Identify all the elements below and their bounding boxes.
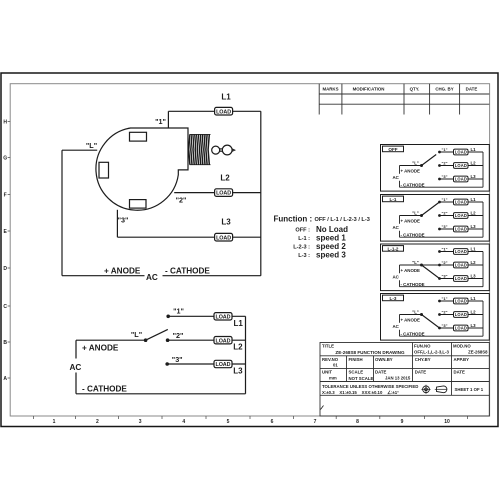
svg-text:AC: AC [393,324,400,329]
function diagram box "L-1-2" [381,244,490,291]
svg-text:APP.BY: APP.BY [454,357,470,362]
svg-text:JAN 13 2015: JAN 13 2015 [385,376,411,381]
svg-text:speed 3: speed 3 [316,250,346,259]
terminal slot 3 (bottom) [130,200,147,209]
svg-text:- CATHODE: - CATHODE [401,331,425,336]
svg-text:L2: L2 [471,161,477,166]
LOAD boxes box 2 [454,199,469,205]
LOAD boxes box 3 [454,249,469,255]
wires box 4 [400,301,484,336]
chain end nub [232,149,235,151]
svg-text:OFF,L-1,L-2-3,L-3: OFF,L-1,L-2-3,L-3 [414,350,449,355]
wire: left vertical [61,150,63,276]
svg-text:- CATHODE: - CATHODE [82,384,127,393]
svg-text:"2": "2" [173,331,184,340]
svg-text:DATE: DATE [454,370,466,375]
function diagram box "L-3" [381,294,490,341]
svg-text:"1": "1" [441,247,447,252]
lower schematic wires [76,316,246,394]
svg-text:"3": "3" [441,274,447,279]
svg-text:LOAD: LOAD [455,263,467,268]
svg-text:ZE-268S8: ZE-268S8 [468,350,488,355]
svg-text:"3": "3" [441,224,447,229]
svg-text:DATE: DATE [375,370,387,375]
svg-text:AC: AC [70,363,82,372]
svg-text:AC: AC [393,225,400,230]
switch common dot L (lower) [144,338,148,342]
svg-text:Function :: Function : [274,215,313,224]
svg-text:LOAD: LOAD [216,338,231,344]
svg-text:"L": "L" [86,141,97,150]
svg-text:L1: L1 [471,247,477,252]
svg-text:+ ANODE: + ANODE [82,344,119,353]
switch common dot "L" box 2 [420,214,423,217]
wire: bottom rail with AC gap [62,275,261,277]
load resistor LOAD1 [215,107,233,115]
svg-text:- CATHODE: - CATHODE [401,282,425,287]
wire: L2 from body [174,192,261,194]
svg-text:1: 1 [53,419,56,425]
LOAD boxes box 1 [454,149,469,155]
svg-text:"1": "1" [441,147,447,152]
svg-text:"L": "L" [412,310,419,315]
wires box 1 [400,152,484,187]
svg-text:L3: L3 [233,366,243,375]
svg-text:LOAD: LOAD [216,235,231,241]
sheet outer border [1,73,498,427]
svg-text:SCALE: SCALE [349,370,364,375]
load resistor LOAD1 (lower) [214,313,232,320]
svg-text:mm: mm [329,376,337,381]
terminal dots 1,2,3 box 1 [438,151,441,154]
svg-text:AC: AC [393,275,400,280]
svg-text:- CATHODE: - CATHODE [165,267,210,276]
load resistor LOAD2 (lower) [214,337,232,344]
wire: left vertical with AC gap [75,340,77,394]
wires box 3 [400,252,484,287]
function diagram box "L-1" [381,195,490,242]
svg-text:LOAD: LOAD [455,249,467,254]
svg-text:- CATHODE: - CATHODE [401,182,425,187]
function diagram box "OFF" [381,145,490,192]
terminal dots 1,2,3 box 3 [438,250,441,253]
third-angle projection symbol (target) [423,386,430,393]
svg-text:LOAD: LOAD [455,163,467,168]
switch arm box 1 (OFF) [422,155,437,166]
svg-text:"2": "2" [441,161,447,166]
svg-text:LOAD: LOAD [455,150,467,155]
svg-text:7: 7 [314,419,317,425]
wire: L3 rail [117,236,260,238]
switch arm box 2 (L-1) [422,202,440,216]
column numbers 1-10 on bottom margin [53,419,450,425]
switch arm box 4 (L-3) [422,315,440,329]
svg-text:L3: L3 [471,224,477,229]
svg-text:"3": "3" [118,216,129,225]
svg-text:TITLE: TITLE [322,344,334,349]
terminal dot 2 (lower) [166,338,170,342]
wire: terminal 1 up to L1 rail [167,111,169,127]
svg-text:01: 01 [333,363,338,368]
load resistor LOAD3 (lower) [214,360,232,367]
svg-text:G: G [3,155,7,161]
pull-chain spring coil [189,134,211,164]
terminal dots 1,2,3 box 4 [438,300,441,303]
switch common dot "L" box 4 [420,313,423,316]
wire: right vertical [260,111,262,275]
terminal dot 3 (lower) [165,362,169,366]
svg-text:L-3 :: L-3 : [298,253,310,259]
wire: row 2 [168,339,246,341]
wire: row 1 [168,315,245,317]
svg-text:L2: L2 [471,260,477,265]
svg-text:OFF: OFF [388,147,397,152]
svg-text:"1": "1" [441,197,447,202]
svg-text:LOAD: LOAD [455,326,467,331]
wire: L terminal to left [62,149,97,151]
svg-text:B: B [3,340,7,346]
svg-text:L1: L1 [234,319,244,328]
svg-text:10: 10 [444,419,450,425]
svg-text:"L": "L" [412,211,419,216]
sheet inner frame [10,84,489,416]
svg-text:DATE: DATE [466,87,478,92]
svg-text:4: 4 [182,419,185,425]
switch arm box 3 (L-1-2) [422,265,440,279]
wire: terminal 3 down [116,210,118,237]
svg-text:MARKS: MARKS [322,87,338,92]
svg-text:LOAD: LOAD [216,362,231,368]
svg-text:L-1-2: L-1-2 [388,246,399,251]
svg-text:"2": "2" [176,196,187,205]
svg-text:LOAD: LOAD [455,177,467,182]
svg-text:SHEET 1 OF 1: SHEET 1 OF 1 [455,387,484,392]
svg-text:OWN.BY: OWN.BY [375,357,393,362]
svg-text:L3: L3 [471,323,477,328]
svg-text:L3: L3 [471,274,477,279]
load resistor LOAD3 [215,233,233,241]
svg-text:L-1 :: L-1 : [298,236,310,242]
svg-text:L1: L1 [471,296,477,301]
svg-text:QTY.: QTY. [410,87,420,92]
terminal slot L (left) [99,162,109,178]
svg-text:L3: L3 [471,174,477,179]
revision table (MARKS/MODIFICATION/QTY./CHG.BY/DATE) [319,84,489,115]
svg-text:+ ANODE: + ANODE [401,268,421,273]
wire: right vertical [245,316,247,394]
svg-text:LOAD: LOAD [455,200,467,205]
svg-text:X:±0.3 X1:±0.15 XXX:±0.1: X:±0.3 X1:±0.15 XXX:±0.10 ∠:±1° [322,390,399,395]
switch common dot "L" box 3 [420,264,423,267]
terminal slot 1 (top) [130,132,147,141]
wire: L1 rail [168,110,260,112]
projection cone symbol [437,386,447,393]
svg-text:MOD.NO: MOD.NO [453,344,471,349]
svg-text:L2: L2 [471,310,477,315]
svg-text:"L": "L" [412,161,419,166]
svg-text:"3": "3" [441,323,447,328]
svg-text:"2": "2" [441,211,447,216]
wire: cathode line [76,393,246,395]
svg-text:L2: L2 [220,174,230,183]
svg-text:L-3: L-3 [390,296,397,301]
svg-text:+ ANODE: + ANODE [401,169,421,174]
svg-text:OFF :: OFF : [295,228,310,234]
svg-text:REV.NO: REV.NO [322,357,339,362]
svg-text:"1": "1" [441,296,447,301]
revision tick mark [321,406,324,410]
svg-text:AC: AC [146,273,158,282]
rotary pull-chain switch S1 body [96,128,188,210]
chain link [220,149,222,152]
wires box 2 [400,202,484,237]
svg-text:"1": "1" [155,117,166,126]
svg-text:"2": "2" [441,260,447,265]
wire: anode line to L dot [76,339,146,341]
svg-text:L1: L1 [471,147,477,152]
svg-text:8: 8 [356,419,359,425]
svg-text:LOAD: LOAD [455,312,467,317]
row letters A-H on left margin [3,119,7,382]
svg-text:3: 3 [139,419,142,425]
svg-text:LOAD: LOAD [455,213,467,218]
svg-text:H: H [3,119,7,125]
svg-text:LOAD: LOAD [216,314,231,320]
svg-text:L1: L1 [221,93,231,102]
svg-text:"L": "L" [131,330,142,339]
svg-text:L-1: L-1 [390,197,397,202]
svg-text:L1: L1 [471,197,477,202]
svg-text:9: 9 [401,419,404,425]
svg-text:A: A [3,376,7,382]
svg-text:"3": "3" [172,355,183,364]
svg-text:"1": "1" [173,307,184,316]
wire: row 3 [167,363,245,365]
switch arm (lower schematic) [146,329,168,340]
svg-text:FINISH: FINISH [349,357,363,362]
svg-text:D: D [3,266,7,272]
svg-text:L3: L3 [221,218,231,227]
switch common dot "L" box 1 [420,164,423,167]
title block [320,343,489,417]
LOAD boxes box 4 [454,298,469,304]
svg-text:2: 2 [96,419,99,425]
svg-text:L2: L2 [471,211,477,216]
svg-text:5: 5 [227,419,230,425]
svg-text:6: 6 [271,419,274,425]
svg-text:+ ANODE: + ANODE [401,318,421,323]
svg-text:DATE: DATE [415,370,427,375]
svg-text:MODIFICATION: MODIFICATION [353,87,385,92]
chain bead large [222,145,232,155]
svg-text:NOT SCALE: NOT SCALE [349,376,374,381]
svg-text:+ ANODE: + ANODE [104,267,141,276]
svg-text:LOAD: LOAD [216,191,231,197]
svg-text:LOAD: LOAD [455,227,467,232]
svg-text:UNIT: UNIT [322,370,332,375]
column number ticks [34,416,468,419]
svg-text:TOLERANCE UNLESS OTHERWISE SPE: TOLERANCE UNLESS OTHERWISE SPECIFIED [322,384,418,389]
svg-text:L2: L2 [233,343,243,352]
svg-text:"L": "L" [412,260,419,265]
svg-text:LOAD: LOAD [455,276,467,281]
svg-text:CHY.BY: CHY.BY [415,357,431,362]
svg-text:CHG. BY: CHG. BY [435,87,453,92]
svg-text:L-2-3 :: L-2-3 : [293,244,310,250]
svg-text:LOAD: LOAD [455,299,467,304]
svg-text:ZE-268S8 FUNCTION DRAWING: ZE-268S8 FUNCTION DRAWING [335,350,405,355]
svg-text:"2": "2" [441,310,447,315]
svg-text:F: F [4,192,7,198]
svg-text:"3": "3" [441,174,447,179]
svg-text:+ ANODE: + ANODE [401,219,421,224]
svg-text:- CATHODE: - CATHODE [401,232,425,237]
svg-text:C: C [3,304,7,310]
load resistor LOAD2 [215,189,233,197]
chain bead small [212,146,220,154]
svg-text:OFF / L-1 / L-2-3 / L-3: OFF / L-1 / L-2-3 / L-3 [315,217,370,223]
terminal dots 1,2,3 box 2 [438,201,441,204]
terminal dot 1 (lower) [166,315,170,319]
row letter ticks [8,122,11,379]
svg-text:AC: AC [393,175,400,180]
svg-text:FUN.NO: FUN.NO [414,344,431,349]
svg-text:LOAD: LOAD [216,109,231,115]
